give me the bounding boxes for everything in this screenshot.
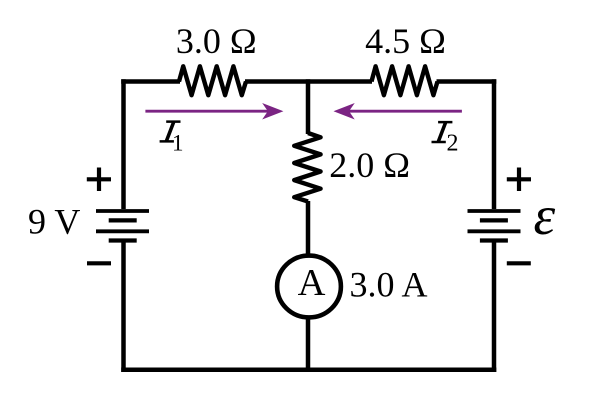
label I1: [160, 120, 181, 142]
svg-text:3.0 Ω: 3.0 Ω: [176, 21, 257, 61]
wire: left vertical (top wire to battery top plate): [121, 79, 126, 209]
battery B2: plate 3 long: [468, 229, 521, 233]
wire: middle vertical (top node to R3): [306, 79, 311, 134]
resistor R1 3.0 ohm (horizontal zigzag): [179, 66, 246, 95]
wire: bottom horizontal: [121, 368, 496, 373]
wire: top segment (center node to R2): [308, 79, 372, 84]
svg-text:3.0 A: 3.0 A: [350, 264, 428, 304]
battery B2 plus sign: [507, 168, 531, 192]
wire: top-middle segment (R1 to center node): [245, 79, 308, 84]
svg-text:1: 1: [172, 131, 184, 156]
svg-text:ε: ε: [534, 185, 556, 246]
wire: top-left segment (left corner to R1): [121, 79, 180, 84]
battery B2: plate 4 short (-): [480, 238, 508, 242]
battery B1 minus sign: [87, 261, 111, 265]
resistor R2 4.5 ohm (horizontal zigzag): [372, 66, 438, 95]
battery B2 (EMF): plate 1 long (+): [468, 209, 521, 213]
label I2: [432, 121, 453, 143]
ammeter A (circle): [277, 256, 341, 318]
wire: middle vertical (ammeter to bottom wire): [306, 317, 311, 372]
svg-text:9 V: 9 V: [28, 202, 80, 242]
current arrow I2 (purple, pointing left): [335, 104, 462, 118]
battery B1 9V: plate 1 long (+): [96, 209, 149, 213]
wire: top-right segment (R2 to right corner): [437, 79, 497, 84]
wire: left vertical (battery bottom to bottom wire): [121, 241, 126, 372]
svg-text:A: A: [298, 262, 326, 304]
wire: right vertical (top wire to battery top plate): [492, 79, 497, 209]
wire: right vertical (battery bottom to bottom wire): [492, 241, 497, 372]
battery B2: plate 2 short: [480, 218, 508, 222]
current arrow I1 (purple, pointing right): [145, 104, 282, 118]
resistor R3 2.0 ohm (vertical zigzag): [294, 133, 320, 202]
battery B2 minus sign: [507, 261, 531, 265]
battery B1 plus sign: [87, 168, 111, 192]
battery B1: plate 2 short: [109, 218, 137, 222]
svg-text:2: 2: [447, 131, 459, 157]
svg-text:2.0 Ω: 2.0 Ω: [329, 145, 410, 185]
svg-text:4.5 Ω: 4.5 Ω: [365, 21, 446, 61]
battery B1: plate 4 short (-): [109, 238, 137, 242]
wire: middle vertical (R3 to ammeter): [306, 201, 311, 256]
battery B1: plate 3 long: [96, 229, 149, 233]
